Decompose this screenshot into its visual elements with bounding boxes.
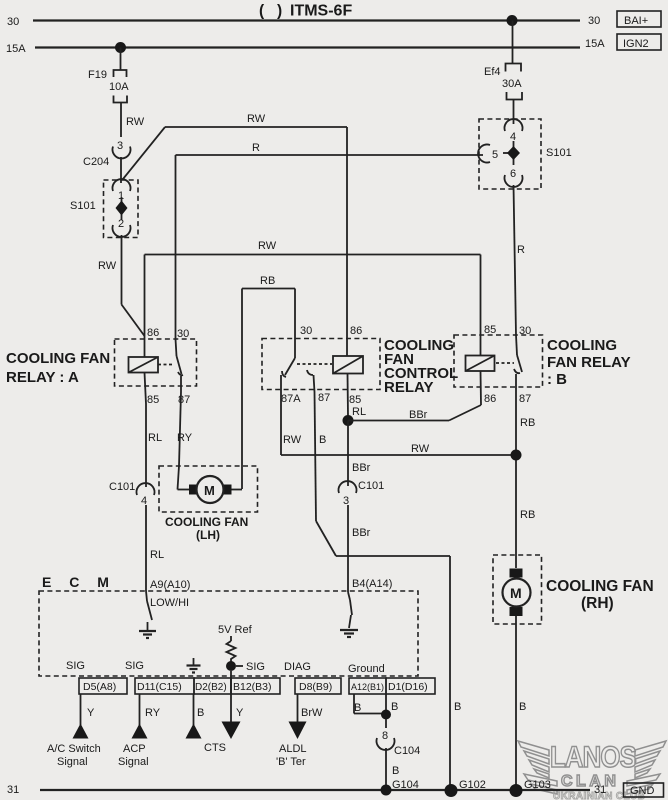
svg-text:31: 31	[594, 784, 606, 796]
relay A pin 85	[145, 373, 160, 407]
svg-text:A/C Switch: A/C Switch	[47, 743, 101, 755]
svg-text:RW: RW	[283, 434, 302, 446]
ECM DIAG label	[284, 661, 311, 673]
svg-text:C101: C101	[358, 480, 384, 492]
svg-text:ALDL: ALDL	[279, 743, 307, 755]
svg-text:RY: RY	[177, 432, 193, 444]
svg-text:C104: C104	[394, 745, 420, 757]
svg-text:(: (	[259, 3, 265, 20]
junction dot on 30 bus	[507, 15, 518, 26]
svg-text:D1(D16): D1(D16)	[388, 681, 428, 693]
wire B from control relay 87 to G102	[315, 392, 462, 791]
S101 pin 5	[478, 145, 498, 163]
svg-text:8: 8	[382, 730, 388, 742]
svg-text:B4(A14): B4(A14)	[352, 578, 392, 590]
svg-text:85: 85	[147, 394, 159, 406]
fuse Ef4	[484, 64, 522, 100]
wire D8 BrW signal arrow down	[276, 694, 323, 768]
svg-text:RL: RL	[150, 549, 164, 561]
svg-text:(RH): (RH)	[581, 595, 614, 612]
ECM pin A12(B1)	[349, 678, 386, 694]
svg-text:86: 86	[147, 327, 159, 339]
relay A switch	[176, 339, 184, 392]
svg-text:RW: RW	[247, 113, 266, 125]
wire RW vertical to control relay 86	[346, 127, 348, 356]
svg-text:COOLING FAN: COOLING FAN	[165, 515, 248, 529]
svg-text:30: 30	[519, 325, 531, 337]
cooling fan LH box	[159, 466, 258, 512]
svg-text:RW: RW	[126, 116, 145, 128]
ECM SIG label 1	[66, 660, 85, 672]
relay B name	[547, 337, 631, 388]
control relay name	[384, 337, 458, 396]
connector C104 pin 8	[377, 719, 421, 757]
cooling fan LH motor	[178, 476, 243, 503]
label 30 left	[7, 16, 19, 28]
relay A link	[158, 364, 174, 366]
svg-text:6: 6	[510, 168, 516, 180]
label 30 right	[588, 15, 600, 27]
svg-text:SIG: SIG	[66, 660, 85, 672]
wire relay A 85 down RL	[146, 404, 162, 487]
svg-text:B12(B3): B12(B3)	[233, 681, 272, 693]
junction dot on 15A bus	[115, 42, 126, 53]
ECM B4 internal ground	[340, 592, 358, 637]
svg-text:RW: RW	[411, 443, 430, 455]
wire D2 B signal arrow	[186, 694, 227, 754]
svg-text:M: M	[510, 585, 522, 601]
svg-text:RB: RB	[520, 417, 535, 429]
wire BBr from RL dot to relay B 86	[343, 405, 482, 426]
svg-text:C204: C204	[83, 156, 109, 168]
ECM pin D5(A8)	[79, 678, 127, 694]
svg-text:Ground: Ground	[348, 663, 385, 675]
S101 splice node	[116, 197, 128, 220]
svg-text:30: 30	[300, 325, 312, 337]
svg-text:ITMS-6F: ITMS-6F	[290, 3, 352, 20]
ground G104 dot	[381, 785, 392, 796]
relay B pin 87 label	[519, 393, 531, 405]
svg-text:10A: 10A	[109, 81, 129, 93]
svg-text:B: B	[392, 765, 399, 777]
wire RW top horizontal	[123, 113, 347, 179]
logo watermark	[518, 740, 666, 800]
relay B coil	[466, 356, 495, 372]
svg-text:A12(B1): A12(B1)	[351, 682, 384, 692]
svg-text:COOLING FAN: COOLING FAN	[6, 350, 110, 367]
svg-text:F19: F19	[88, 69, 107, 81]
svg-text:A9(A10): A9(A10)	[150, 579, 190, 591]
svg-text:86: 86	[484, 393, 496, 405]
wire BBr down to C101 pin 3	[348, 421, 371, 487]
relay A name	[6, 350, 110, 386]
svg-text:BAI+: BAI+	[624, 15, 648, 27]
svg-text:D5(A8): D5(A8)	[83, 681, 116, 693]
svg-text:C101: C101	[109, 481, 135, 493]
ECM pin D1(D16)	[386, 678, 435, 694]
S101 pin 4	[505, 119, 523, 143]
relay A box	[115, 339, 197, 386]
box BAI+	[617, 11, 661, 27]
svg-text:GND: GND	[630, 785, 655, 797]
ECM pin D11(C15)	[135, 678, 194, 694]
svg-text:'B' Ter: 'B' Ter	[276, 756, 306, 768]
control relay link	[297, 363, 332, 365]
svg-text:ACP: ACP	[123, 743, 146, 755]
svg-text:DIAG: DIAG	[284, 661, 311, 673]
ECM pin D8(B9)	[295, 678, 341, 694]
svg-text:: B: : B	[547, 371, 567, 388]
ECM pin B12(B3)	[231, 678, 280, 694]
splice S101 right box	[479, 119, 572, 189]
svg-text:B: B	[354, 702, 361, 714]
control relay pin 87A label	[281, 393, 301, 405]
svg-text:RW: RW	[98, 260, 117, 272]
S101 right splice node	[503, 141, 520, 165]
svg-text:5V Ref: 5V Ref	[218, 624, 253, 636]
ECM D2 internal ground	[187, 658, 201, 673]
label 15A right	[585, 38, 605, 50]
svg-text:BBr: BBr	[409, 409, 428, 421]
wire RH motor to G103	[516, 616, 526, 790]
svg-text:D2(B2): D2(B2)	[195, 682, 227, 693]
wire 15A bus to fuse F19	[120, 48, 122, 71]
svg-text:RB: RB	[260, 275, 275, 287]
control relay pin 30 label	[300, 325, 312, 337]
wire RB bridge fan LH to control relay 30	[242, 275, 295, 489]
svg-text:COOLING FAN: COOLING FAN	[546, 578, 654, 595]
bus 15A line	[35, 46, 580, 48]
svg-text:LANOS: LANOS	[550, 740, 636, 773]
svg-text:3: 3	[117, 140, 123, 152]
label 31 left	[7, 784, 19, 796]
connector C204 pin 3	[83, 140, 131, 168]
control relay switch	[281, 358, 315, 392]
svg-text:SIG: SIG	[246, 661, 265, 673]
svg-text:B: B	[197, 707, 204, 719]
wire C204 to S101 pin 1	[120, 157, 122, 183]
svg-text:Signal: Signal	[118, 756, 149, 768]
svg-text:RY: RY	[145, 707, 161, 719]
svg-text:(LH): (LH)	[196, 528, 220, 542]
relay A pin 87 label	[178, 394, 190, 406]
relay B pin 30 label	[519, 325, 531, 337]
wire C101-4 to ECM A9	[146, 505, 164, 591]
svg-text:RB: RB	[520, 509, 535, 521]
wire D5 Y signal arrow	[47, 694, 101, 768]
svg-text:30: 30	[588, 15, 600, 27]
svg-text:): )	[277, 3, 282, 20]
svg-text:86: 86	[350, 325, 362, 337]
box GND	[624, 783, 664, 797]
svg-text:CTS: CTS	[204, 742, 226, 754]
svg-text:30A: 30A	[502, 78, 522, 90]
wire S101 pin2 down RW	[98, 235, 145, 336]
S101 pin 2	[113, 218, 131, 237]
svg-text:D8(B9): D8(B9)	[299, 681, 332, 693]
control relay pin 87 label	[318, 392, 330, 404]
wire A12 B to junction	[354, 694, 386, 714]
relay B link	[496, 362, 514, 364]
svg-text:30: 30	[7, 16, 19, 28]
ECM A9 internal ground	[139, 591, 156, 638]
splice S101 left box	[70, 180, 138, 238]
bus 30 line	[33, 19, 580, 21]
svg-text:M: M	[204, 483, 215, 498]
svg-text:BBr: BBr	[352, 462, 371, 474]
cooling fan RH box	[493, 555, 542, 624]
wire C101-3 to ECM B4	[348, 505, 392, 592]
svg-text:BrW: BrW	[301, 707, 323, 719]
ECM A9 label	[150, 579, 190, 609]
svg-text:Y: Y	[87, 707, 95, 719]
cooling fan LH label	[165, 515, 248, 542]
label 31 right	[594, 784, 606, 796]
svg-text:87A: 87A	[281, 393, 301, 405]
svg-text:87: 87	[318, 392, 330, 404]
svg-text:RELAY : A: RELAY : A	[6, 369, 79, 386]
svg-text:FAN RELAY: FAN RELAY	[547, 354, 631, 371]
wire R vertical to relay A 30	[175, 155, 177, 339]
wire B12 Y signal arrow down	[222, 671, 245, 739]
svg-text:5: 5	[492, 149, 498, 161]
svg-text:85: 85	[484, 324, 496, 336]
bus 31 ground line	[40, 789, 590, 791]
svg-text:B: B	[454, 701, 461, 713]
ECM Ground label	[348, 663, 385, 675]
svg-text:2: 2	[118, 218, 124, 230]
wire RW second horizontal	[145, 240, 481, 255]
control relay coil	[333, 356, 363, 374]
svg-text:87: 87	[519, 393, 531, 405]
svg-text:31: 31	[7, 784, 19, 796]
wire Ef4 to S101 pin 4	[513, 100, 515, 125]
wire RW third horizontal 87A to RB node	[281, 392, 522, 461]
wire relay B 87 down RB	[516, 392, 535, 568]
svg-text:RW: RW	[258, 240, 277, 252]
svg-text:D11(C15): D11(C15)	[137, 681, 182, 693]
svg-text:RELAY: RELAY	[384, 379, 433, 396]
svg-text:SIG: SIG	[125, 660, 144, 672]
svg-text:COOLING: COOLING	[547, 337, 617, 354]
svg-text:15A: 15A	[585, 38, 605, 50]
ECM 5V Ref resistor	[218, 624, 253, 671]
title ITMS-6F	[259, 3, 352, 20]
connector C101 pin 3	[339, 480, 385, 507]
control relay pin 86 label	[350, 325, 362, 337]
svg-text:R: R	[252, 142, 260, 154]
svg-text:Y: Y	[236, 707, 244, 719]
cooling fan RH label	[546, 578, 654, 612]
connector C101 pin 4	[109, 481, 154, 507]
svg-text:LOW/HI: LOW/HI	[150, 597, 189, 609]
wire R horizontal	[176, 142, 484, 155]
wire D11 RY signal arrow	[118, 694, 161, 768]
ECM box	[39, 591, 418, 676]
S101 pin 6	[505, 168, 523, 187]
control relay box	[262, 339, 380, 390]
svg-text:CLAN: CLAN	[561, 773, 619, 790]
wire C104 to G104	[386, 748, 419, 791]
svg-text:RL: RL	[148, 432, 162, 444]
svg-text:B: B	[319, 434, 326, 446]
wire D1 B to junction	[381, 694, 398, 720]
svg-text:S101: S101	[546, 147, 572, 159]
svg-text:BBr: BBr	[352, 527, 371, 539]
svg-text:R: R	[517, 244, 525, 256]
svg-text:30: 30	[177, 328, 189, 340]
svg-text:IGN2: IGN2	[623, 38, 649, 50]
ECM SIG label 3	[246, 661, 265, 673]
relay B pin 86	[481, 371, 497, 405]
ground G102 dot	[445, 779, 486, 797]
ground G103 dot	[510, 779, 551, 797]
label 15A left	[6, 43, 26, 55]
relay B switch	[514, 335, 522, 392]
ECM SIG label 2	[125, 660, 144, 672]
wire RW drop to relay B 85	[480, 255, 482, 357]
svg-text:Ef4: Ef4	[484, 66, 501, 78]
svg-text:G102: G102	[459, 779, 486, 791]
ECM pin D2(B2)	[194, 678, 231, 694]
fuse F19	[88, 69, 129, 103]
ECM label	[42, 574, 116, 590]
svg-text:85: 85	[349, 394, 361, 406]
wire relay A 87 down RY	[177, 392, 193, 490]
wire S101 pin6 down R	[514, 185, 526, 335]
S101 pin 1	[113, 179, 131, 202]
svg-text:RL: RL	[352, 406, 366, 418]
relay A coil	[129, 357, 159, 373]
cooling fan RH motor	[503, 569, 531, 617]
svg-text:B: B	[391, 701, 398, 713]
svg-text:E C M: E C M	[42, 574, 116, 590]
control relay pin 85	[348, 374, 367, 419]
svg-text:Signal: Signal	[57, 756, 88, 768]
wire fuse F19 to C204	[121, 103, 145, 138]
svg-text:B: B	[519, 701, 526, 713]
fuse Ef4 wire from 30 bus	[512, 21, 514, 64]
box IGN2	[617, 34, 661, 50]
svg-text:S101: S101	[70, 200, 96, 212]
relay A pin 86 label	[147, 327, 159, 339]
wire RW drop to relay A 86	[144, 255, 146, 358]
svg-text:15A: 15A	[6, 43, 26, 55]
svg-text:G103: G103	[524, 779, 551, 791]
relay B pin 85 label	[484, 324, 496, 336]
relay A pin 30 label	[177, 328, 189, 340]
relay B box	[454, 335, 543, 387]
